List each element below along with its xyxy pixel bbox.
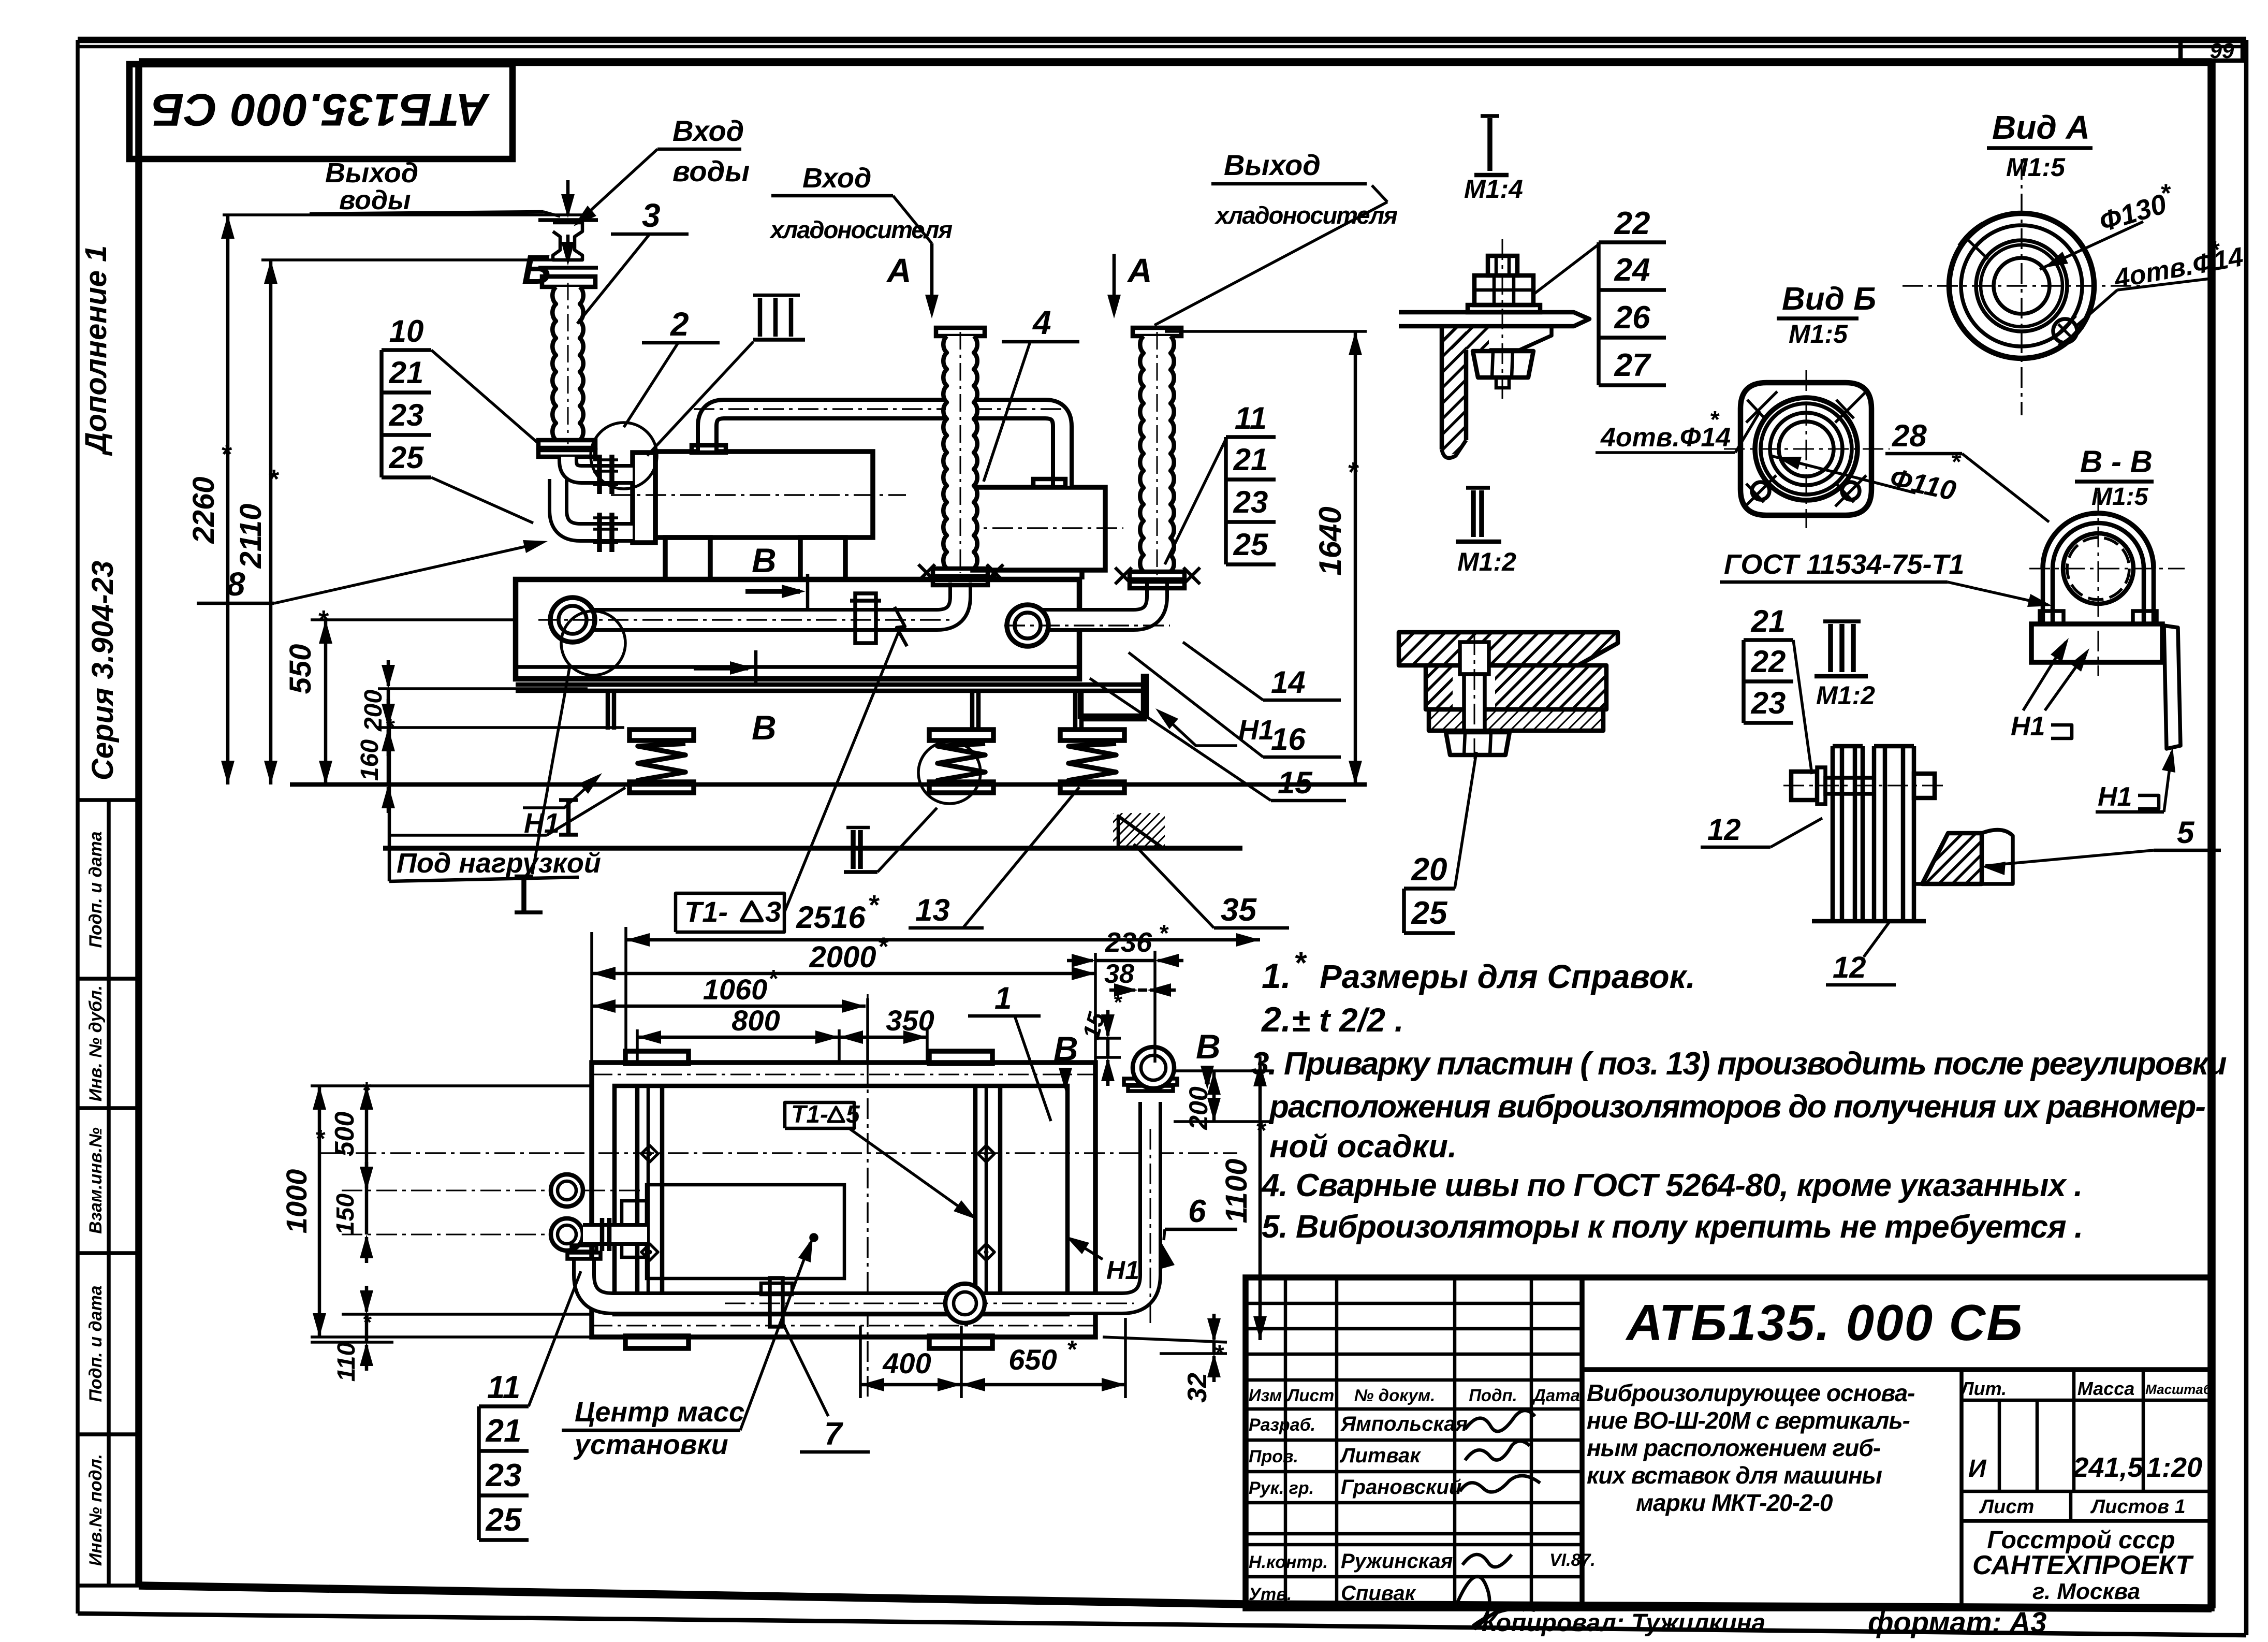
svg-text:800: 800 (731, 1004, 780, 1037)
svg-text:М1:5: М1:5 (2091, 483, 2149, 511)
svg-text:А: А (886, 251, 912, 289)
svg-text:Подп. и дата: Подп. и дата (86, 831, 106, 948)
svg-text:Рук. гр.: Рук. гр. (1249, 1478, 1314, 1498)
svg-text:1640: 1640 (1313, 506, 1348, 575)
svg-text:26: 26 (1614, 300, 1650, 336)
svg-text:ГОСТ 11534-75-Т1: ГОСТ 11534-75-Т1 (1724, 549, 1965, 580)
svg-text:Т1-: Т1- (791, 1101, 828, 1128)
svg-text:400: 400 (882, 1347, 931, 1379)
svg-text:Вид А: Вид А (1992, 109, 2090, 146)
svg-text:10: 10 (389, 314, 424, 348)
svg-text:В - В: В - В (2080, 444, 2153, 479)
svg-text:*: * (221, 440, 232, 470)
svg-text:В: В (1053, 1029, 1078, 1068)
svg-text:*: * (1709, 406, 1720, 433)
svg-text:*: * (361, 1166, 371, 1190)
svg-text:110: 110 (333, 1342, 360, 1382)
svg-text:Н.контр.: Н.контр. (1249, 1552, 1328, 1572)
svg-text:*: * (1255, 1116, 1267, 1145)
svg-text:Серия 3.904-23: Серия 3.904-23 (86, 561, 120, 780)
svg-text:марки МКТ-20-2-0: марки МКТ-20-2-0 (1636, 1489, 1833, 1516)
svg-text:Лист: Лист (1979, 1496, 2034, 1518)
svg-text:550: 550 (284, 644, 317, 694)
svg-text:1000: 1000 (280, 1169, 313, 1234)
svg-text:27: 27 (1614, 347, 1651, 383)
svg-text:21: 21 (1751, 604, 1786, 638)
svg-text:23: 23 (1751, 686, 1786, 720)
svg-text:25: 25 (1233, 527, 1269, 562)
svg-text:200: 200 (1184, 1086, 1213, 1130)
svg-text:11: 11 (1235, 401, 1267, 435)
svg-text:*: * (1066, 1336, 1077, 1363)
svg-text:500: 500 (330, 1112, 360, 1157)
svg-text:14: 14 (1271, 665, 1306, 700)
svg-text:М1:5: М1:5 (2006, 153, 2066, 182)
svg-text:22: 22 (1614, 206, 1650, 241)
svg-text:236: 236 (1105, 927, 1152, 958)
svg-text:1:20: 1:20 (2146, 1452, 2202, 1483)
svg-text:Вход: Вход (802, 163, 871, 194)
svg-text:Дата: Дата (1532, 1386, 1580, 1405)
svg-text:2260: 2260 (187, 476, 221, 544)
svg-text:Копировал: Тужилкина: Копировал: Тужилкина (1482, 1609, 1765, 1637)
svg-text:Н1: Н1 (1106, 1256, 1139, 1285)
svg-text:150: 150 (332, 1194, 359, 1235)
svg-text:16: 16 (1271, 722, 1306, 757)
svg-text:Спивак: Спивак (1341, 1582, 1416, 1605)
svg-text:Масштаб: Масштаб (2145, 1382, 2212, 1397)
svg-text:21: 21 (389, 355, 424, 390)
svg-text:2.: 2. (1261, 1000, 1291, 1039)
svg-text:Выход: Выход (1224, 149, 1321, 181)
svg-text:И: И (1968, 1455, 1987, 1483)
svg-text:хладоносителя: хладоносителя (769, 216, 952, 243)
svg-text:3: 3 (765, 895, 781, 928)
svg-text:воды: воды (339, 185, 411, 215)
svg-text:*: * (1347, 457, 1359, 488)
svg-text:Под нагрузкой: Под нагрузкой (397, 848, 601, 879)
svg-text:В: В (752, 708, 777, 747)
svg-text:25: 25 (486, 1502, 522, 1538)
svg-text:Дополнение 1: Дополнение 1 (79, 245, 113, 457)
svg-text:*: * (1113, 990, 1122, 1014)
svg-text:АТБ135. 000 СБ: АТБ135. 000 СБ (1625, 1294, 2024, 1351)
svg-text:Подп.: Подп. (1469, 1386, 1517, 1405)
svg-text:М1:4: М1:4 (1464, 175, 1523, 204)
svg-text:4. Сварные швы по ГОСТ 5264-: 4. Сварные швы по ГОСТ 5264-80, кроме ук… (1261, 1168, 2082, 1203)
svg-text:3. Приварку пластин ( поз. 1: 3. Приварку пластин ( поз. 13) производи… (1251, 1046, 2227, 1082)
svg-text:Грановский: Грановский (1341, 1476, 1461, 1499)
svg-text:В: В (1196, 1027, 1221, 1066)
svg-text:Подп. и дата: Подп. и дата (86, 1285, 106, 1402)
svg-text:Лит.: Лит. (1959, 1378, 2007, 1399)
svg-text:Пров.: Пров. (1249, 1447, 1298, 1466)
svg-text:М1:2: М1:2 (1457, 547, 1516, 576)
svg-text:ной осадки.: ной осадки. (1269, 1129, 1457, 1165)
svg-text:Изм: Изм (1249, 1386, 1282, 1405)
svg-text:Литвак: Литвак (1339, 1444, 1421, 1467)
svg-text:Размеры для Справок.: Размеры для Справок. (1320, 958, 1695, 995)
svg-text:1.: 1. (1262, 956, 1291, 996)
svg-text:М1:5: М1:5 (1789, 319, 1848, 348)
svg-text:Листов 1: Листов 1 (2090, 1496, 2186, 1518)
svg-text:23: 23 (389, 398, 424, 432)
svg-text:6: 6 (1188, 1194, 1206, 1229)
svg-text:Разраб.: Разраб. (1249, 1415, 1315, 1435)
svg-text:5: 5 (2177, 815, 2195, 850)
svg-text:8: 8 (227, 565, 245, 603)
svg-text:25: 25 (1411, 895, 1448, 931)
svg-text:3: 3 (642, 197, 661, 234)
svg-text:М1:2: М1:2 (1816, 681, 1875, 710)
svg-text:7: 7 (824, 1416, 843, 1452)
svg-text:4: 4 (1032, 304, 1051, 341)
svg-text:Утв.: Утв. (1249, 1585, 1292, 1604)
svg-text:11: 11 (487, 1370, 520, 1405)
svg-text:ным расположением гиб-: ным расположением гиб- (1587, 1434, 1880, 1461)
svg-text:22: 22 (1751, 644, 1786, 679)
svg-text:Вид Б: Вид Б (1782, 281, 1876, 317)
svg-text:№ докум.: № докум. (1354, 1386, 1436, 1405)
svg-text:*: * (868, 890, 880, 921)
svg-text:23: 23 (1233, 485, 1268, 519)
svg-text:ние ВО-Ш-20М с вертикаль-: ние ВО-Ш-20М с вертикаль- (1587, 1407, 1910, 1434)
svg-text:2: 2 (670, 306, 689, 343)
svg-text:*: * (877, 932, 889, 961)
svg-text:*: * (2160, 179, 2171, 208)
svg-text:Взам.инв.№: Взам.инв.№ (86, 1127, 106, 1234)
svg-text:установки: установки (573, 1429, 728, 1460)
svg-text:Инв.№ подл.: Инв.№ подл. (86, 1454, 106, 1566)
svg-text:Ямпольская: Ямпольская (1340, 1413, 1468, 1435)
svg-text:99: 99 (2210, 38, 2234, 63)
svg-text:ких вставок для машины: ких вставок для машины (1587, 1462, 1882, 1489)
svg-text:*: * (1214, 1340, 1224, 1367)
svg-text:12: 12 (1833, 951, 1866, 984)
svg-text:160: 160 (356, 739, 384, 781)
svg-text:*: * (1159, 920, 1169, 947)
svg-text:2516: 2516 (796, 900, 866, 935)
svg-text:1060: 1060 (703, 973, 768, 1006)
svg-text:*: * (268, 464, 280, 495)
svg-text:21: 21 (1233, 442, 1268, 477)
svg-text:2110: 2110 (234, 504, 268, 569)
svg-text:650: 650 (1008, 1343, 1057, 1376)
svg-text:15: 15 (1278, 765, 1313, 800)
svg-text:200: 200 (360, 690, 387, 732)
svg-text:5. Виброизоляторы к полу к: 5. Виброизоляторы к полу крепить не треб… (1262, 1209, 2083, 1245)
svg-text:Вход: Вход (672, 114, 744, 147)
svg-text:1: 1 (994, 981, 1012, 1015)
svg-text:12: 12 (1707, 813, 1741, 847)
svg-text:32: 32 (1182, 1373, 1212, 1403)
svg-text:VI.87.: VI.87. (1549, 1550, 1596, 1570)
svg-text:20: 20 (1411, 852, 1447, 888)
svg-text:*: * (768, 965, 779, 993)
svg-text:хладоносителя: хладоносителя (1214, 201, 1397, 229)
svg-text:5: 5 (846, 1101, 860, 1128)
svg-text:24: 24 (1614, 252, 1650, 288)
svg-text:25: 25 (389, 440, 425, 475)
svg-text:*: * (317, 605, 329, 635)
svg-text:АТБ135.000 СБ: АТБ135.000 СБ (151, 84, 490, 136)
svg-text:В: В (752, 541, 777, 579)
svg-text:Ружинская: Ружинская (1341, 1550, 1453, 1573)
svg-text:241,5: 241,5 (2072, 1452, 2143, 1483)
svg-text:*: * (315, 1125, 326, 1153)
svg-text:воды: воды (672, 155, 750, 187)
svg-text:21: 21 (486, 1413, 522, 1449)
svg-text:Виброизолирующее основа-: Виброизолирующее основа- (1587, 1379, 1915, 1406)
svg-text:13: 13 (915, 893, 950, 927)
svg-text:*: * (362, 1310, 372, 1334)
svg-text:г. Москва: г. Москва (2032, 1579, 2140, 1604)
svg-text:35: 35 (1221, 892, 1257, 928)
svg-text:38: 38 (1104, 959, 1134, 989)
svg-text:*: * (361, 1078, 371, 1103)
svg-text:± t 2/2 .: ± t 2/2 . (1292, 1001, 1404, 1039)
svg-text:Масса: Масса (2077, 1378, 2135, 1399)
svg-text:формат: А3: формат: А3 (1868, 1606, 2046, 1638)
svg-text:Центр масс: Центр масс (575, 1397, 744, 1428)
svg-text:*: * (1294, 946, 1307, 980)
svg-text:Н1: Н1 (2098, 782, 2132, 812)
svg-text:Лист: Лист (1286, 1386, 1335, 1405)
svg-text:Инв. № дубл.: Инв. № дубл. (86, 985, 106, 1101)
svg-text:Т1-: Т1- (684, 895, 728, 928)
svg-text:расположения виброизоляторов: расположения виброизоляторов до получени… (1268, 1089, 2205, 1125)
svg-text:А: А (1126, 251, 1152, 289)
svg-text:2000: 2000 (809, 940, 876, 974)
svg-text:23: 23 (486, 1458, 522, 1493)
svg-text:28: 28 (1892, 418, 1927, 453)
svg-text:1100: 1100 (1220, 1159, 1253, 1224)
svg-text:350: 350 (886, 1004, 934, 1037)
svg-text:Н1: Н1 (2011, 711, 2045, 742)
svg-text:САНТЕХПРОЕКТ: САНТЕХПРОЕКТ (1972, 1550, 2194, 1580)
